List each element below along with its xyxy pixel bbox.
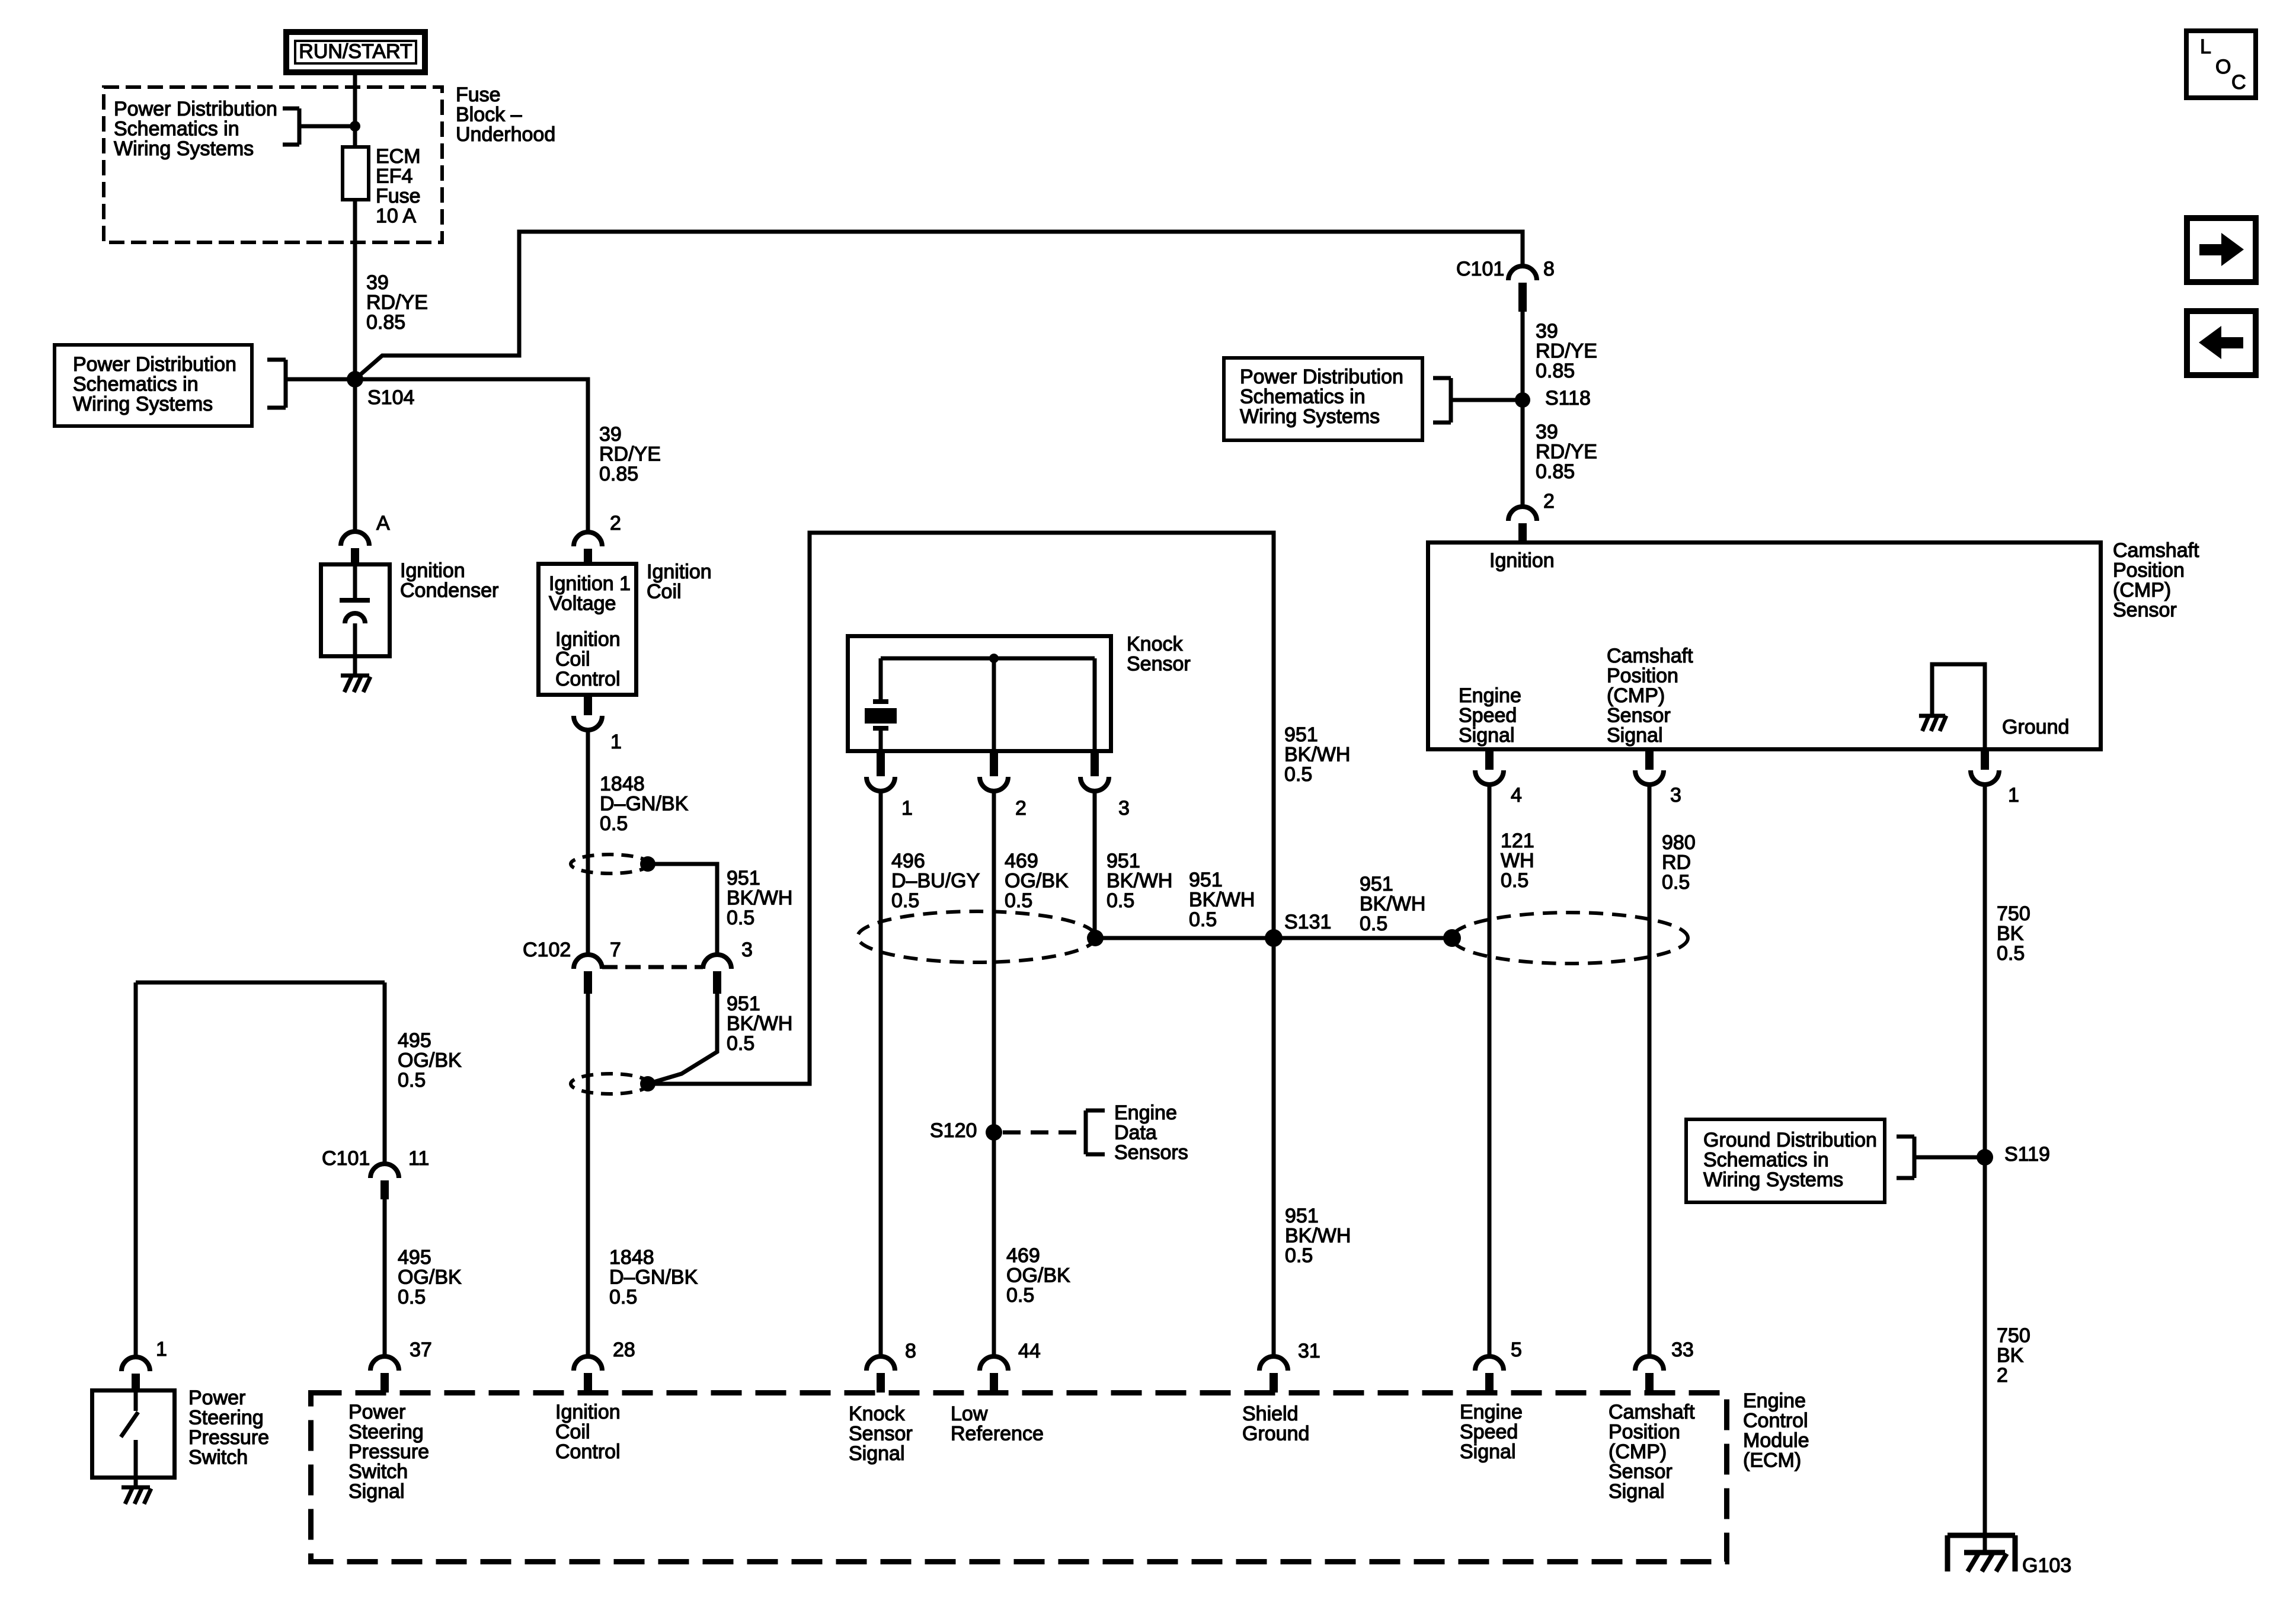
svg-text:C101: C101 xyxy=(322,1147,370,1170)
svg-text:Underhood: Underhood xyxy=(456,123,555,146)
svg-text:0.5: 0.5 xyxy=(1189,908,1217,931)
svg-text:OG/BK: OG/BK xyxy=(398,1266,462,1289)
svg-text:0.5: 0.5 xyxy=(600,812,628,835)
svg-text:EF4: EF4 xyxy=(376,165,412,188)
svg-text:Speed: Speed xyxy=(1460,1421,1518,1443)
svg-text:Steering: Steering xyxy=(348,1421,424,1443)
svg-text:(ECM): (ECM) xyxy=(1743,1449,1801,1472)
svg-text:Ground: Ground xyxy=(1242,1423,1309,1445)
svg-text:Ignition: Ignition xyxy=(555,628,621,651)
svg-text:Sensor: Sensor xyxy=(1607,705,1671,727)
svg-text:RD/YE: RD/YE xyxy=(599,443,661,466)
svg-text:0.5: 0.5 xyxy=(727,1032,754,1055)
svg-text:O: O xyxy=(2215,56,2231,78)
svg-text:3: 3 xyxy=(1118,797,1130,820)
svg-text:L: L xyxy=(2200,36,2211,58)
svg-text:0.5: 0.5 xyxy=(398,1286,426,1308)
svg-text:Schematics in: Schematics in xyxy=(114,118,239,140)
svg-text:121: 121 xyxy=(1501,830,1534,852)
svg-text:Signal: Signal xyxy=(348,1480,405,1503)
svg-text:0.5: 0.5 xyxy=(1360,913,1387,935)
svg-text:3: 3 xyxy=(1670,784,1681,806)
svg-text:RD: RD xyxy=(1662,852,1691,874)
svg-text:Position: Position xyxy=(2113,559,2185,582)
svg-text:C101: C101 xyxy=(1456,258,1504,280)
svg-text:BK/WH: BK/WH xyxy=(1285,1225,1351,1247)
svg-text:Fuse: Fuse xyxy=(456,84,501,106)
svg-text:951: 951 xyxy=(727,993,760,1015)
svg-text:0.5: 0.5 xyxy=(609,1286,637,1308)
svg-text:31: 31 xyxy=(1298,1340,1320,1362)
svg-text:2: 2 xyxy=(1543,490,1555,513)
svg-text:0.85: 0.85 xyxy=(1536,460,1575,483)
svg-text:750: 750 xyxy=(1997,902,2030,925)
svg-text:39: 39 xyxy=(1536,320,1558,343)
svg-text:11: 11 xyxy=(408,1147,429,1170)
svg-text:Ignition: Ignition xyxy=(555,1401,621,1423)
svg-text:1: 1 xyxy=(610,731,622,753)
svg-text:(CMP): (CMP) xyxy=(1609,1441,1667,1463)
svg-text:Camshaft: Camshaft xyxy=(2113,539,2199,562)
svg-text:37: 37 xyxy=(410,1339,432,1361)
svg-text:A: A xyxy=(376,512,390,534)
svg-text:Signal: Signal xyxy=(849,1442,905,1465)
svg-text:Signal: Signal xyxy=(1459,724,1515,747)
svg-text:0.5: 0.5 xyxy=(891,889,919,912)
svg-text:Ignition: Ignition xyxy=(400,559,465,582)
svg-text:951: 951 xyxy=(1107,850,1140,872)
svg-text:S118: S118 xyxy=(1545,387,1591,409)
svg-text:Ignition 1: Ignition 1 xyxy=(549,572,631,595)
svg-text:28: 28 xyxy=(613,1339,635,1361)
svg-text:951: 951 xyxy=(1360,873,1393,895)
svg-text:Switch: Switch xyxy=(348,1461,408,1483)
svg-text:S120: S120 xyxy=(930,1119,977,1142)
svg-text:8: 8 xyxy=(905,1340,916,1362)
svg-text:0.5: 0.5 xyxy=(398,1069,426,1092)
svg-text:Wiring Systems: Wiring Systems xyxy=(1703,1169,1843,1191)
svg-text:33: 33 xyxy=(1671,1339,1694,1361)
svg-text:RD/YE: RD/YE xyxy=(1536,340,1597,363)
svg-text:S131: S131 xyxy=(1284,911,1331,933)
svg-text:Low: Low xyxy=(951,1403,988,1425)
svg-text:Sensor: Sensor xyxy=(849,1423,913,1445)
svg-text:Engine: Engine xyxy=(1114,1102,1177,1124)
svg-text:BK/WH: BK/WH xyxy=(727,887,792,910)
svg-text:0.5: 0.5 xyxy=(1107,889,1134,912)
svg-text:1848: 1848 xyxy=(600,773,645,795)
svg-text:Ignition: Ignition xyxy=(1489,549,1555,572)
svg-text:Reference: Reference xyxy=(951,1423,1044,1445)
svg-text:Shield: Shield xyxy=(1242,1403,1299,1425)
svg-text:Ignition: Ignition xyxy=(647,561,712,583)
svg-text:Position: Position xyxy=(1607,665,1678,687)
svg-text:WH: WH xyxy=(1501,850,1534,872)
svg-text:Sensors: Sensors xyxy=(1114,1141,1188,1164)
svg-text:BK/WH: BK/WH xyxy=(1189,889,1255,911)
svg-text:Knock: Knock xyxy=(849,1403,905,1425)
svg-text:Schematics in: Schematics in xyxy=(1240,386,1366,408)
svg-text:495: 495 xyxy=(398,1246,431,1269)
svg-text:Coil: Coil xyxy=(555,1421,590,1443)
svg-text:Wiring Systems: Wiring Systems xyxy=(73,393,213,415)
svg-text:Camshaft: Camshaft xyxy=(1609,1401,1695,1423)
svg-text:Power Distribution: Power Distribution xyxy=(73,353,236,376)
svg-text:S104: S104 xyxy=(367,386,414,409)
svg-text:0.5: 0.5 xyxy=(1006,1284,1034,1307)
svg-text:5: 5 xyxy=(1511,1339,1522,1361)
svg-text:7: 7 xyxy=(610,939,621,961)
svg-text:Schematics in: Schematics in xyxy=(1703,1149,1829,1172)
svg-text:2: 2 xyxy=(610,512,621,534)
svg-text:Sensor: Sensor xyxy=(2113,599,2177,622)
svg-text:Power: Power xyxy=(348,1401,405,1423)
svg-text:Ground Distribution: Ground Distribution xyxy=(1703,1129,1877,1151)
svg-text:Sensor: Sensor xyxy=(1609,1461,1673,1483)
svg-text:BK/WH: BK/WH xyxy=(1360,893,1425,916)
svg-text:0.5: 0.5 xyxy=(1997,942,2025,965)
svg-text:39: 39 xyxy=(1536,421,1558,443)
svg-text:Data: Data xyxy=(1114,1122,1157,1144)
svg-text:(CMP): (CMP) xyxy=(1607,684,1665,707)
svg-text:C: C xyxy=(2231,71,2246,94)
svg-text:Power Distribution: Power Distribution xyxy=(1240,366,1403,388)
svg-text:0.5: 0.5 xyxy=(727,907,754,929)
svg-text:10 A: 10 A xyxy=(376,205,416,228)
svg-text:8: 8 xyxy=(1543,258,1555,280)
svg-text:OG/BK: OG/BK xyxy=(1005,870,1069,892)
svg-text:Engine: Engine xyxy=(1460,1401,1523,1423)
svg-text:RD/YE: RD/YE xyxy=(366,292,428,314)
svg-text:Schematics in: Schematics in xyxy=(73,373,199,396)
svg-text:44: 44 xyxy=(1018,1340,1041,1362)
svg-text:2: 2 xyxy=(1997,1364,2008,1387)
svg-text:BK/WH: BK/WH xyxy=(727,1013,792,1035)
svg-text:Ground: Ground xyxy=(2002,716,2069,738)
svg-text:496: 496 xyxy=(891,850,925,872)
svg-text:Condenser: Condenser xyxy=(400,580,498,602)
svg-text:D–GN/BK: D–GN/BK xyxy=(600,793,689,815)
svg-text:BK: BK xyxy=(1997,1345,2024,1367)
svg-text:750: 750 xyxy=(1997,1324,2030,1347)
svg-text:0.85: 0.85 xyxy=(366,311,405,334)
svg-text:Coil: Coil xyxy=(555,648,590,671)
svg-text:Knock: Knock xyxy=(1127,633,1183,655)
svg-text:Wiring Systems: Wiring Systems xyxy=(114,137,254,160)
svg-text:Speed: Speed xyxy=(1459,705,1517,727)
svg-text:Pressure: Pressure xyxy=(348,1441,429,1463)
svg-text:0.5: 0.5 xyxy=(1285,1244,1313,1267)
svg-text:D–GN/BK: D–GN/BK xyxy=(609,1266,698,1289)
svg-text:Control: Control xyxy=(555,668,621,690)
svg-text:0.5: 0.5 xyxy=(1005,889,1032,912)
svg-text:Fuse: Fuse xyxy=(376,185,421,207)
svg-text:1: 1 xyxy=(2008,784,2019,806)
svg-text:Module: Module xyxy=(1743,1429,1809,1452)
svg-text:S119: S119 xyxy=(2004,1143,2050,1166)
svg-text:BK/WH: BK/WH xyxy=(1107,870,1172,892)
svg-text:1: 1 xyxy=(901,797,913,820)
svg-text:Block –: Block – xyxy=(456,104,522,126)
svg-text:Signal: Signal xyxy=(1607,724,1663,747)
svg-text:0.85: 0.85 xyxy=(1536,360,1575,382)
svg-text:Switch: Switch xyxy=(188,1446,248,1469)
svg-text:Engine: Engine xyxy=(1743,1390,1806,1412)
svg-text:Pressure: Pressure xyxy=(188,1426,269,1449)
svg-text:495: 495 xyxy=(398,1029,431,1052)
svg-text:1: 1 xyxy=(156,1338,167,1361)
svg-text:Control: Control xyxy=(555,1441,621,1463)
svg-text:Wiring Systems: Wiring Systems xyxy=(1240,405,1380,428)
svg-text:980: 980 xyxy=(1662,831,1696,854)
svg-text:Power: Power xyxy=(188,1387,245,1409)
svg-text:0.5: 0.5 xyxy=(1501,869,1528,892)
svg-text:4: 4 xyxy=(1511,784,1522,806)
svg-text:0.85: 0.85 xyxy=(599,463,638,485)
svg-text:Signal: Signal xyxy=(1460,1441,1516,1463)
svg-text:0.5: 0.5 xyxy=(1662,871,1690,894)
svg-text:951: 951 xyxy=(1284,724,1318,746)
svg-text:OG/BK: OG/BK xyxy=(1006,1265,1070,1287)
svg-text:Coil: Coil xyxy=(647,581,682,603)
svg-text:0.5: 0.5 xyxy=(1284,763,1312,786)
svg-text:(CMP): (CMP) xyxy=(2113,579,2171,601)
svg-text:C102: C102 xyxy=(523,939,571,961)
svg-text:Voltage: Voltage xyxy=(549,593,616,615)
svg-text:Camshaft: Camshaft xyxy=(1607,645,1693,667)
svg-text:Control: Control xyxy=(1743,1410,1808,1432)
svg-text:39: 39 xyxy=(366,271,389,294)
svg-text:3: 3 xyxy=(741,939,753,961)
svg-text:ECM: ECM xyxy=(376,145,421,168)
svg-text:BK/WH: BK/WH xyxy=(1284,744,1350,766)
svg-text:2: 2 xyxy=(1015,797,1027,820)
svg-text:G103: G103 xyxy=(2022,1554,2071,1577)
svg-text:1848: 1848 xyxy=(609,1246,654,1269)
svg-text:39: 39 xyxy=(599,423,622,446)
svg-text:469: 469 xyxy=(1005,850,1038,872)
svg-text:Engine: Engine xyxy=(1459,684,1521,707)
svg-text:Position: Position xyxy=(1609,1421,1680,1443)
svg-text:951: 951 xyxy=(1189,869,1223,891)
svg-text:D–BU/GY: D–BU/GY xyxy=(891,870,980,892)
svg-text:RUN/START: RUN/START xyxy=(299,40,412,63)
svg-text:951: 951 xyxy=(727,867,760,889)
svg-text:OG/BK: OG/BK xyxy=(398,1049,462,1072)
svg-text:Signal: Signal xyxy=(1609,1480,1665,1503)
svg-text:Sensor: Sensor xyxy=(1127,653,1191,676)
svg-text:Power Distribution: Power Distribution xyxy=(114,98,277,120)
svg-text:RD/YE: RD/YE xyxy=(1536,441,1597,463)
svg-text:Steering: Steering xyxy=(188,1407,264,1429)
svg-text:469: 469 xyxy=(1006,1244,1040,1267)
svg-text:BK: BK xyxy=(1997,923,2024,945)
svg-text:951: 951 xyxy=(1285,1205,1319,1227)
